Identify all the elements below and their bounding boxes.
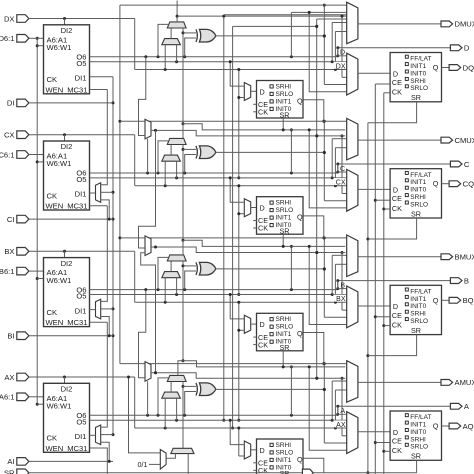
wire outmux O5-up A — [332, 381, 347, 420]
wire DI chain stub A — [101, 434, 113, 436]
mux CYINIT carry — [171, 448, 194, 453]
svg-text:Q: Q — [433, 63, 439, 72]
svg-text:WEN: WEN — [46, 202, 64, 211]
pin A6:1 input — [0, 393, 44, 402]
wire F8 in-bot dot — [154, 371, 157, 374]
svg-text:CQ: CQ — [463, 180, 474, 189]
wire XOR-to-outmux vert A — [323, 362, 326, 443]
svg-text:D: D — [393, 186, 398, 195]
wire FF5 mux out B — [251, 323, 257, 325]
pin CI input — [7, 215, 113, 224]
wire carry-DI out D — [170, 28, 172, 39]
flip-flop FF/LAT D — [390, 53, 441, 103]
svg-text:AI: AI — [7, 457, 14, 466]
svg-text:DI1: DI1 — [75, 190, 87, 199]
wire CY staircase B — [183, 240, 345, 248]
wire FF5 SR C — [282, 234, 284, 246]
wire FF Q out A — [442, 425, 450, 427]
wire carry-DI leg O5 A — [176, 398, 178, 420]
svg-text:Q: Q — [297, 96, 303, 105]
svg-text:INIT1: INIT1 — [276, 457, 292, 464]
wire ffmux to FF D A — [358, 431, 390, 433]
svg-text:INIT0: INIT0 — [410, 303, 426, 310]
svg-text:D: D — [393, 302, 398, 311]
flip-flop FF/LAT C — [390, 169, 441, 219]
xor-gate carry XOR D — [196, 29, 216, 42]
wire O6 to outmux C — [290, 128, 293, 173]
wire O6 to outmux D — [290, 12, 292, 56]
wire W write-address bus — [36, 37, 39, 406]
wire BX to LUT DI2 — [64, 251, 66, 257]
wire MC31 chain in A — [101, 322, 108, 427]
wire outmux in5 A — [335, 390, 346, 428]
svg-text:CK: CK — [392, 204, 402, 213]
label D net — [339, 48, 346, 56]
wire FF5 mux in1 D — [229, 60, 245, 86]
wire CX select line — [135, 135, 347, 188]
wire FF5 mux in1 C — [229, 176, 245, 202]
pin DX input — [4, 14, 135, 23]
svg-text:CE: CE — [392, 311, 402, 320]
svg-text:CK: CK — [258, 224, 268, 233]
wire FF5 mux in2 D — [237, 68, 244, 179]
LUT B (A6LUT W-LUT) — [44, 258, 90, 328]
wire carry-DI out B — [170, 261, 172, 272]
svg-text:INIT1: INIT1 — [276, 98, 292, 105]
wire outmux in5 B — [335, 264, 346, 302]
wire FF SR A — [416, 460, 418, 473]
svg-text:INIT0: INIT0 — [410, 429, 426, 436]
pin AX input — [4, 373, 134, 382]
wire O6 to carry select A — [158, 378, 168, 415]
svg-text:Q: Q — [433, 296, 439, 305]
mux FF5-in C — [244, 199, 250, 217]
wire bus x316 — [315, 19, 318, 380]
wire outmux in2 D — [291, 11, 346, 14]
label A net — [339, 407, 346, 415]
wire O6 to XOR B — [185, 271, 196, 290]
mux ffmux A — [347, 412, 358, 454]
wire FF5 mux out C — [251, 207, 257, 209]
mux ffmux B — [347, 286, 358, 328]
svg-text:INIT1: INIT1 — [410, 179, 426, 186]
wire ffmux in4 D — [341, 15, 347, 78]
wire W6:W1 tick — [37, 278, 43, 280]
mux carry-DI B — [162, 272, 181, 278]
wire CIN D — [182, 28, 185, 125]
LUT D (A6LUT W-LUT) — [44, 25, 90, 95]
wire COUT A — [178, 361, 183, 376]
svg-text:CK: CK — [392, 320, 402, 329]
wire DMUX out — [358, 23, 441, 25]
svg-text:INIT1: INIT1 — [410, 296, 426, 303]
wire CK bus — [382, 93, 385, 474]
svg-text:INIT1: INIT1 — [410, 422, 426, 429]
wire XOR out C — [216, 151, 326, 154]
wire ffmux in4 B — [341, 251, 347, 310]
wire DI1 D — [90, 76, 114, 78]
wire XOR to ffmux D — [324, 84, 346, 86]
wire ffmux in4 C — [341, 134, 347, 193]
wire AI up to mux — [101, 442, 111, 463]
svg-text:SRHI: SRHI — [410, 194, 426, 201]
svg-text:D: D — [340, 50, 345, 57]
mux F7AMUX — [145, 362, 151, 382]
svg-text:SRLO: SRLO — [410, 444, 428, 451]
wire FF5 Q hop C — [303, 216, 325, 240]
svg-text:CK: CK — [47, 308, 58, 317]
flip-flop FF5 A — [253, 439, 303, 474]
wire CI up to mux — [101, 200, 111, 221]
wire W6:W1 tick — [37, 403, 43, 405]
pin C6:1 input — [0, 150, 44, 159]
svg-text:SRHI: SRHI — [276, 316, 292, 323]
wire outmux in0 C — [120, 120, 347, 122]
svg-text:CMUX: CMUX — [455, 136, 474, 145]
svg-text:AX: AX — [4, 373, 14, 382]
svg-text:B6:1: B6:1 — [0, 267, 15, 276]
svg-text:BQ: BQ — [463, 296, 474, 305]
wire CMUX out — [358, 139, 441, 141]
wire ffmux to FF D C — [358, 188, 390, 190]
label 0/1 — [138, 460, 161, 469]
svg-text:B: B — [340, 283, 345, 290]
mux FF5-in B — [244, 315, 250, 333]
wire CK stub D — [384, 92, 390, 94]
svg-text:Q: Q — [433, 422, 439, 431]
wire F7BMUX in-top — [139, 57, 146, 136]
svg-text:AQ: AQ — [463, 422, 474, 431]
pin DI input — [7, 99, 113, 108]
svg-text:MC31: MC31 — [67, 318, 87, 327]
svg-text:SRLO: SRLO — [276, 449, 294, 456]
svg-text:DI2: DI2 — [61, 259, 73, 268]
svg-text:SRLO: SRLO — [276, 324, 294, 331]
wire F7AMUX out line — [151, 371, 345, 380]
wire ffmux in6 C — [309, 130, 347, 208]
wire W6:W1 tick — [37, 45, 43, 47]
wire XOR out B — [216, 267, 326, 270]
wire FF5 mux in1 A — [229, 419, 245, 445]
wire CIN A — [182, 382, 185, 449]
svg-text:D6:1: D6:1 — [0, 34, 15, 43]
pin CQ output — [449, 180, 474, 189]
wire DX to LUT DI2 — [64, 19, 66, 25]
mux carry-DI A — [162, 392, 181, 398]
wire carry-DI out A — [170, 382, 172, 393]
wire outmux O5-up C — [332, 139, 347, 178]
svg-text:0/1: 0/1 — [138, 460, 148, 469]
wire CK stub C — [384, 208, 390, 210]
wire FF5 mux out A — [251, 449, 257, 451]
mux ffmux D — [347, 53, 358, 95]
wire MC31 chain in B — [101, 206, 108, 302]
mux outmux C — [347, 118, 358, 159]
wire ffmux to FF D B — [358, 305, 390, 307]
label DX select — [333, 62, 345, 70]
svg-text:CE: CE — [392, 194, 402, 203]
wire MC31 A exit — [90, 448, 108, 474]
xor-gate carry XOR A — [196, 383, 216, 396]
wire FF5 mux in1 B — [229, 293, 245, 319]
wire ffmux in6 D — [309, 12, 347, 91]
svg-text:DX: DX — [336, 63, 346, 70]
pin CX input — [4, 131, 135, 140]
wire O5 C — [90, 176, 347, 179]
wire BX select line — [135, 251, 347, 303]
mux carry-DI D — [162, 39, 181, 45]
svg-text:INIT0: INIT0 — [410, 70, 426, 77]
mux MUXCY C — [167, 138, 186, 144]
wire XOR out D — [216, 34, 326, 37]
wire outmux in0 B — [120, 237, 347, 239]
wire COUT C — [182, 124, 184, 139]
svg-text:D: D — [260, 446, 265, 455]
svg-text:D: D — [260, 204, 265, 213]
wire FF Q out B — [442, 299, 450, 301]
wire AX select line — [135, 377, 347, 430]
wire CY line D — [177, 15, 347, 18]
mux outmux B — [347, 235, 358, 277]
wire F7AMUX in-top — [139, 290, 146, 378]
svg-text:DI1: DI1 — [75, 432, 87, 441]
wire long vertical to A O5 — [222, 16, 225, 422]
svg-text:FF/LAT: FF/LAT — [410, 56, 431, 63]
wire CIN C — [182, 145, 185, 242]
wire O6 to outmux A — [290, 365, 293, 415]
wire outmux in5 D — [335, 32, 346, 70]
svg-text:WEN: WEN — [46, 85, 64, 94]
wire O6 to C output — [336, 163, 450, 174]
wire CE stub C — [375, 199, 390, 201]
wire O5 A — [90, 419, 347, 422]
pin B6:1 input — [0, 267, 44, 276]
wire FF5 mux in2 A — [237, 427, 244, 457]
svg-text:INIT0: INIT0 — [410, 187, 426, 194]
wire F7AMUX in-bot — [147, 381, 149, 415]
svg-text:DI2: DI2 — [61, 26, 73, 35]
svg-text:Q: Q — [297, 455, 303, 464]
wire carry-DI leg X D — [164, 45, 166, 70]
svg-text:SRHI: SRHI — [410, 311, 426, 318]
mux F8MUX — [145, 236, 151, 256]
wire CYINIT sel leg — [166, 454, 175, 459]
svg-text:FF/LAT: FF/LAT — [410, 288, 431, 295]
wire O6 to carry select C — [158, 141, 168, 173]
wire XOR to ffmux A — [324, 442, 346, 444]
wire MC31 C — [90, 205, 108, 207]
svg-text:D: D — [260, 87, 265, 96]
wire O6 to carry select B — [158, 257, 168, 289]
mux CYINIT 0/1 — [160, 450, 166, 470]
pin CMUX output — [441, 136, 474, 145]
svg-text:MC31: MC31 — [67, 444, 87, 453]
mux MUXCY B — [167, 255, 186, 261]
svg-text:C: C — [340, 166, 345, 173]
wire AMUX out — [358, 381, 441, 383]
wire carry-DI out C — [170, 145, 172, 156]
label BX select — [333, 295, 345, 303]
svg-text:DI2: DI2 — [61, 385, 73, 394]
flip-flop FF/LAT A — [390, 411, 441, 461]
mux carry-DI C — [162, 155, 181, 161]
wire outmux in-d D — [317, 18, 347, 20]
wire O6 to XOR D — [185, 38, 196, 57]
svg-text:WEN: WEN — [46, 318, 64, 327]
svg-text:DI2: DI2 — [61, 142, 73, 151]
wire F8MUX out line — [151, 246, 345, 255]
wire FF SR D — [368, 102, 417, 123]
wire carry-DI leg O5 D — [176, 45, 178, 62]
wire CE stub A — [375, 442, 390, 444]
wire F7BMUX in-bot — [147, 139, 149, 173]
svg-text:SRHI: SRHI — [276, 83, 292, 90]
wire carry-DI leg O5 C — [176, 161, 178, 178]
wire XOR in1 C — [183, 148, 196, 150]
wire XOR in1 B — [183, 265, 196, 267]
wire CX to LUT DI2 — [64, 135, 66, 141]
wire XOR out A — [216, 388, 326, 391]
svg-text:A: A — [340, 408, 345, 415]
wire FF5 mux out D — [251, 90, 257, 92]
wire carry-DI leg O5 B — [176, 278, 178, 295]
wire XOR-to-outmux vert C — [323, 120, 326, 201]
mux DI1 A — [96, 425, 101, 445]
wire O6 C — [90, 172, 338, 175]
wire XOR to ffmux B — [324, 316, 346, 318]
svg-text:DMUX: DMUX — [455, 20, 474, 29]
mux MUXCY D — [167, 22, 186, 28]
wire CY staircase A — [183, 361, 345, 369]
svg-text:AX: AX — [336, 422, 346, 429]
wire FF5 mux in2 B — [237, 301, 244, 422]
svg-text:SRLO: SRLO — [410, 85, 428, 92]
wire FF5 SR B — [282, 351, 284, 367]
wire outmux in5 C — [335, 148, 346, 186]
svg-text:SRLO: SRLO — [276, 207, 294, 214]
wire O6 to outmux B — [290, 245, 293, 290]
mux MUXCY A — [167, 375, 186, 381]
svg-text:SRHI: SRHI — [410, 78, 426, 85]
wire F8 in-bot — [141, 253, 156, 373]
svg-text:BI: BI — [7, 332, 14, 341]
wire AX to CYINIT — [127, 376, 160, 453]
LUT C (A6LUT W-LUT) — [44, 141, 90, 211]
pin DMUX output — [441, 20, 474, 29]
wire O6 to A output — [336, 405, 450, 416]
svg-text:MC31: MC31 — [67, 202, 87, 211]
svg-text:CK: CK — [258, 108, 268, 117]
pin AQ output — [449, 422, 474, 431]
wire O6 to D output — [336, 46, 450, 57]
wire O6 to XOR C — [185, 155, 196, 174]
svg-text:INIT0: INIT0 — [276, 106, 292, 113]
wire O5 D — [90, 60, 347, 63]
wire FF5 Q hop B — [303, 333, 325, 366]
wire CE stub B — [375, 316, 390, 318]
svg-text:B: B — [464, 276, 469, 285]
wire BI up to mux — [101, 317, 111, 338]
wire O5 B — [90, 293, 347, 296]
wire CY staircase C — [183, 124, 345, 132]
wire DI chain stub C — [101, 191, 113, 193]
svg-text:CK: CK — [392, 88, 402, 97]
svg-text:WEN: WEN — [46, 444, 64, 453]
svg-text:SRLO: SRLO — [410, 201, 428, 208]
svg-text:CE: CE — [392, 437, 402, 446]
svg-text:INIT1: INIT1 — [276, 215, 292, 222]
svg-text:A6:1: A6:1 — [0, 393, 15, 402]
pin BX input — [4, 247, 134, 256]
wire L4 line D — [233, 25, 319, 28]
wire CIN B — [182, 261, 185, 362]
svg-text:FF/LAT: FF/LAT — [410, 414, 431, 421]
svg-text:MC31: MC31 — [67, 85, 87, 94]
wire SR bus — [366, 123, 369, 474]
wire XOR-to-outmux vert B — [323, 236, 326, 317]
svg-text:CK: CK — [47, 75, 58, 84]
svg-text:SR: SR — [411, 452, 421, 461]
wire F7BMUX out line — [151, 129, 345, 138]
svg-text:SR: SR — [411, 326, 421, 335]
wire O6 to XOR A — [185, 392, 196, 416]
pin C output — [450, 160, 470, 169]
svg-text:D: D — [393, 69, 398, 78]
wire long vertical to A X line — [231, 26, 234, 429]
label B net — [339, 281, 346, 289]
svg-text:INIT0: INIT0 — [276, 464, 292, 471]
mux FF5-in D — [244, 83, 250, 101]
wire DI1 mux out C — [90, 192, 96, 194]
wire DI1 mux out B — [90, 309, 96, 311]
svg-text:BX: BX — [4, 247, 14, 256]
svg-text:SR: SR — [411, 93, 421, 102]
svg-text:Q: Q — [297, 329, 303, 338]
wire outmux in0 A — [120, 363, 347, 365]
wire AX to LUT DI2 — [64, 377, 66, 383]
svg-text:INIT0: INIT0 — [276, 339, 292, 346]
svg-text:SR: SR — [4, 469, 15, 474]
wire FF Q out C — [442, 183, 450, 185]
svg-text:CI: CI — [7, 215, 15, 224]
mux outmux A — [347, 361, 358, 403]
svg-text:BX: BX — [336, 296, 346, 303]
flip-flop FF5 C — [253, 197, 303, 236]
svg-text:AMUX: AMUX — [455, 378, 474, 387]
svg-text:W6:W1: W6:W1 — [47, 159, 72, 168]
svg-text:CK: CK — [392, 446, 402, 455]
wire long vertical in0 bus — [118, 5, 121, 364]
wire carry-DI leg X B — [164, 278, 166, 303]
svg-text:Q: Q — [297, 213, 303, 222]
wire outmux O5-up D — [332, 23, 347, 62]
svg-text:D: D — [393, 428, 398, 437]
svg-text:D: D — [464, 44, 470, 53]
wire outmux in 14 D — [224, 14, 347, 16]
wire CE bus — [374, 84, 377, 474]
svg-text:O5: O5 — [76, 59, 86, 68]
svg-text:SRHI: SRHI — [276, 442, 292, 449]
wire CE stub D — [375, 83, 390, 85]
wire ffmux in6 A — [309, 367, 347, 450]
mux ffmux C — [347, 169, 358, 211]
wire CK stub A — [384, 450, 390, 452]
wire outmux O5-up B — [332, 255, 347, 294]
wire XOR-to-outmux vert D — [323, 4, 326, 85]
pin BI input — [7, 332, 113, 341]
wire FF Q out D — [442, 67, 450, 69]
wire XOR in1 A — [183, 385, 196, 387]
